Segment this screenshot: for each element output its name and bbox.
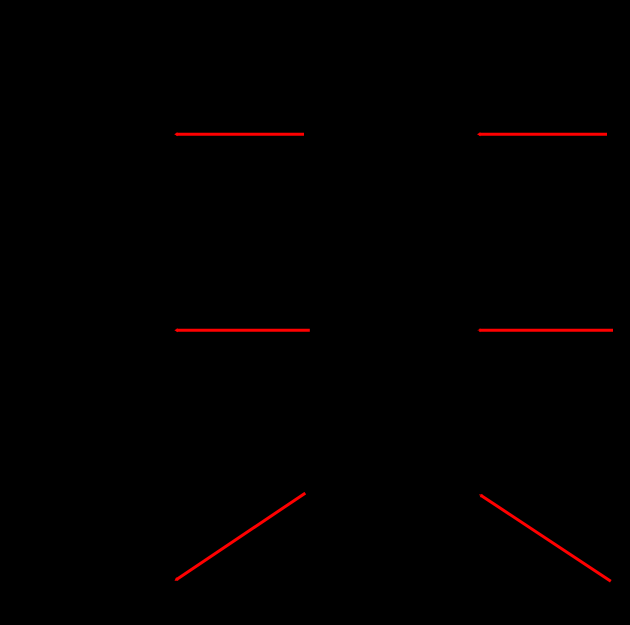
wire: upper-left red current arrow, pointing left — [174, 132, 304, 136]
wire: lower-right diagonal red arrow, pointing up-left — [479, 494, 611, 581]
wire: lower-left diagonal red arrow, pointing down-left — [175, 493, 306, 581]
wire: middle-left red current arrow, pointing left — [174, 328, 309, 332]
wire: upper-right red current arrow, pointing left — [477, 132, 607, 136]
wire: middle-right red current arrow, pointing left — [477, 328, 613, 332]
